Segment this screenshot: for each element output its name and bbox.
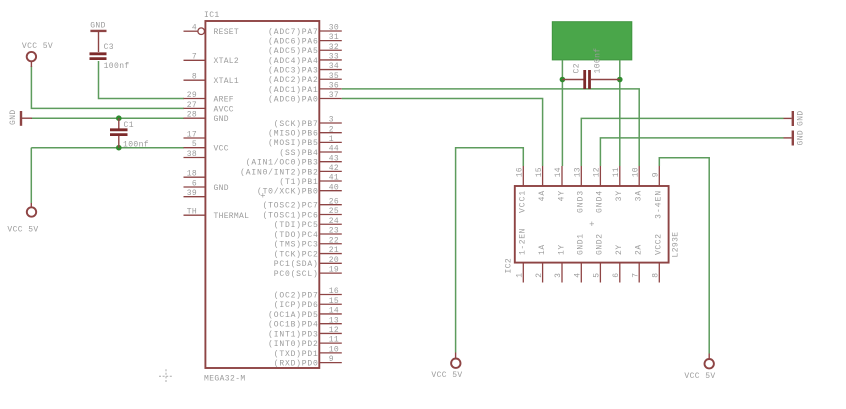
svg-text:13: 13 (329, 316, 339, 325)
svg-text:38: 38 (187, 150, 197, 159)
svg-text:3Y: 3Y (615, 190, 624, 202)
svg-text:PC1(SDA): PC1(SDA) (274, 260, 319, 269)
svg-text:1-2EN: 1-2EN (519, 228, 528, 255)
ground symbol GND (right upper, rotated) (784, 110, 806, 126)
svg-text:100nf: 100nf (123, 140, 149, 149)
svg-text:PC0(SCL): PC0(SCL) (274, 270, 319, 279)
svg-text:VCC2: VCC2 (655, 233, 664, 255)
svg-text:IC2: IC2 (505, 258, 514, 274)
svg-text:RESET: RESET (214, 28, 240, 37)
svg-text:(INT1)PD3: (INT1)PD3 (268, 330, 318, 339)
svg-text:C1: C1 (124, 121, 134, 130)
svg-text:(AIN1/OC0)PB3: (AIN1/OC0)PB3 (246, 159, 319, 168)
svg-text:6: 6 (192, 179, 197, 188)
svg-text:(TMS)PC3: (TMS)PC3 (274, 241, 319, 250)
svg-text:VCC1: VCC1 (519, 190, 528, 213)
svg-text:5: 5 (593, 273, 602, 278)
svg-text:GND: GND (214, 184, 229, 193)
wire net AVCC: VCC supply to IC1 pin 27 (31, 66, 184, 108)
svg-text:C3: C3 (104, 43, 114, 52)
svg-text:9: 9 (329, 355, 334, 364)
svg-text:32: 32 (329, 43, 339, 52)
wire net VCC: bottom-left VCC supply to IC1 pin 5 through C1 bottom (31, 147, 184, 149)
wire net PA0 to IC2 pin 15 (4A) (342, 99, 543, 167)
svg-text:36: 36 (329, 81, 339, 90)
svg-text:16: 16 (329, 287, 339, 296)
svg-text:(ADC2)PA2: (ADC2)PA2 (268, 76, 318, 85)
svg-text:GND: GND (90, 21, 106, 30)
wire motor left terminal to IC2 pin 14 (4Y) (561, 60, 563, 166)
svg-text:4Y: 4Y (557, 190, 566, 202)
svg-text:23: 23 (329, 227, 339, 236)
svg-text:3: 3 (554, 273, 563, 278)
capacitor C2 (rotated) (562, 47, 619, 89)
svg-text:7: 7 (192, 53, 197, 62)
svg-text:26: 26 (329, 197, 339, 206)
svg-text:19: 19 (329, 266, 339, 275)
svg-text:15: 15 (535, 167, 544, 177)
svg-text:22: 22 (329, 236, 339, 245)
svg-text:44: 44 (329, 145, 339, 154)
svg-text:33: 33 (329, 53, 339, 62)
wire net PA1 to IC2 pin 10 (3A) (342, 89, 639, 166)
svg-text:VCC 5V: VCC 5V (684, 372, 715, 381)
svg-text:GND: GND (9, 109, 18, 125)
junction C2 left (560, 77, 566, 83)
svg-text:4: 4 (192, 24, 197, 33)
svg-text:(TXD)PD1: (TXD)PD1 (274, 350, 319, 359)
svg-text:(SCK)PB7: (SCK)PB7 (274, 120, 319, 129)
svg-text:(OC1B)PD4: (OC1B)PD4 (268, 321, 318, 330)
svg-text:43: 43 (329, 154, 339, 163)
svg-text:10: 10 (631, 167, 640, 177)
svg-text:GND3: GND3 (577, 190, 586, 213)
svg-text:(ICP)PD6: (ICP)PD6 (274, 301, 319, 310)
svg-text:100nf: 100nf (104, 62, 130, 71)
motor block (green module) (552, 22, 632, 60)
svg-text:24: 24 (329, 217, 339, 226)
svg-text:GND: GND (797, 130, 806, 146)
svg-text:(MISO)PB6: (MISO)PB6 (268, 130, 318, 139)
svg-text:25: 25 (329, 207, 339, 216)
svg-text:3A: 3A (635, 190, 644, 202)
svg-text:AVCC: AVCC (214, 105, 234, 114)
svg-text:18: 18 (187, 170, 197, 179)
svg-text:GND4: GND4 (596, 190, 605, 213)
IC2 top pins with numbers (516, 166, 661, 186)
svg-text:TH: TH (187, 208, 197, 217)
svg-text:(ADC5)PA5: (ADC5)PA5 (268, 47, 318, 56)
svg-text:1Y: 1Y (557, 244, 566, 255)
svg-text:14: 14 (554, 167, 563, 177)
svg-text:29: 29 (187, 91, 197, 100)
svg-text:(ADC6)PA6: (ADC6)PA6 (268, 38, 318, 47)
svg-text:13: 13 (574, 167, 583, 177)
svg-text:XTAL1: XTAL1 (214, 77, 240, 86)
svg-text:VCC 5V: VCC 5V (7, 226, 38, 235)
svg-text:(SS)PB4: (SS)PB4 (279, 149, 318, 158)
svg-text:12: 12 (593, 167, 602, 177)
svg-text:(OC2)PD7: (OC2)PD7 (274, 291, 319, 300)
svg-text:2: 2 (535, 273, 544, 278)
wire net VCC1: IC2 pin 16 to bottom-center VCC supply (456, 148, 524, 353)
op IC1 MEGA32-M microcontroller body (205, 21, 319, 368)
svg-text:16: 16 (516, 167, 525, 177)
svg-text:(TOSC2)PC7: (TOSC2)PC7 (263, 202, 319, 211)
svg-text:21: 21 (329, 246, 339, 255)
svg-text:41: 41 (329, 174, 339, 183)
svg-text:37: 37 (329, 91, 339, 100)
svg-text:4A: 4A (538, 190, 547, 202)
junction C2 right (617, 77, 623, 83)
svg-text:(ADC0)PA0: (ADC0)PA0 (268, 95, 318, 104)
svg-text:14: 14 (329, 307, 339, 316)
svg-text:(OC1A)PD5: (OC1A)PD5 (268, 311, 318, 320)
svg-text:(ADC3)PA3: (ADC3)PA3 (268, 66, 318, 75)
IC1 left pin names (214, 28, 250, 221)
wire motor right terminal to IC2 pin 11 (3Y) (619, 60, 621, 166)
svg-text:AREF: AREF (214, 95, 234, 104)
wire net GND: left GND symbol to IC1 pin 28 through C1 top (31, 117, 184, 119)
svg-text:1A: 1A (538, 244, 547, 255)
wire net GND3: IC2 pin 13 to right GND (581, 118, 783, 166)
svg-text:20: 20 (329, 256, 339, 265)
svg-text:4: 4 (574, 273, 583, 278)
svg-text:17: 17 (187, 130, 197, 139)
svg-text:9: 9 (652, 172, 661, 177)
svg-text:11: 11 (612, 167, 621, 177)
power symbol VCC 5V (bottom left) (7, 203, 38, 235)
svg-text:2Y: 2Y (615, 244, 624, 255)
svg-text:30: 30 (329, 24, 339, 33)
svg-text:(T0/XCK)PB0: (T0/XCK)PB0 (257, 188, 319, 197)
svg-text:L293E: L293E (672, 231, 681, 257)
svg-text:(INT0)PD2: (INT0)PD2 (268, 340, 318, 349)
ground symbol GND (left, rotated) (9, 109, 32, 125)
svg-text:VCC 5V: VCC 5V (431, 371, 462, 380)
svg-text:(ADC4)PA4: (ADC4)PA4 (268, 57, 318, 66)
svg-text:34: 34 (329, 62, 339, 71)
svg-text:42: 42 (329, 164, 339, 173)
svg-text:VCC 5V: VCC 5V (22, 42, 53, 51)
svg-text:7: 7 (631, 273, 640, 278)
svg-text:GND2: GND2 (596, 233, 605, 255)
svg-text:IC1: IC1 (204, 11, 220, 20)
wire net GND4: IC2 pin 12 to right GND (600, 138, 783, 166)
svg-text:XTAL2: XTAL2 (214, 57, 240, 66)
svg-text:5: 5 (192, 140, 197, 149)
svg-text:39: 39 (187, 189, 197, 198)
svg-text:(MOSI)PB5: (MOSI)PB5 (268, 139, 318, 148)
capacitor C1 (110, 118, 149, 149)
svg-text:35: 35 (329, 72, 339, 81)
junction on VCC net at C1 (116, 145, 122, 151)
capacitor C3 (90, 43, 130, 71)
svg-text:THERMAL: THERMAL (214, 212, 250, 221)
IC2 top pin names (519, 190, 664, 219)
ground symbol GND (top, above C3) (90, 21, 106, 52)
svg-text:(TCK)PC2: (TCK)PC2 (274, 250, 319, 259)
svg-text:100nf: 100nf (594, 47, 603, 73)
svg-text:8: 8 (192, 73, 197, 82)
wire net 3-4EN: IC2 pin 9 to bottom-right VCC supply (659, 158, 709, 354)
svg-text:(ADC1)PA1: (ADC1)PA1 (268, 86, 318, 95)
svg-text:(T1)PB1: (T1)PB1 (279, 178, 318, 187)
wire net AREF: C3 to IC1 pin 29 (99, 61, 185, 99)
svg-text:3-4EN: 3-4EN (655, 190, 664, 219)
svg-text:(TDO)PC4: (TDO)PC4 (274, 231, 319, 240)
svg-text:1: 1 (516, 273, 525, 278)
svg-text:GND: GND (797, 110, 806, 126)
svg-text:(TDI)PC5: (TDI)PC5 (274, 221, 319, 230)
IC2 bottom pins with numbers (516, 263, 661, 283)
svg-text:10: 10 (329, 345, 339, 354)
svg-text:12: 12 (329, 326, 339, 335)
op IC2 L293E driver body (515, 186, 669, 263)
svg-text:15: 15 (329, 297, 339, 306)
svg-text:1: 1 (329, 135, 334, 144)
svg-text:GND1: GND1 (577, 233, 586, 255)
power symbol VCC 5V (bottom right) (684, 354, 715, 381)
svg-text:+: + (589, 220, 595, 230)
svg-text:GND: GND (214, 115, 229, 124)
svg-text:28: 28 (187, 111, 197, 120)
svg-text:C2: C2 (573, 63, 582, 73)
power symbol VCC 5V (bottom center) (431, 353, 462, 381)
svg-text:40: 40 (329, 183, 339, 192)
svg-text:11: 11 (329, 336, 339, 345)
svg-text:2: 2 (329, 125, 334, 134)
IC1 left pins with numbers (184, 24, 206, 217)
junction on GND net at C1 (116, 115, 122, 121)
IC1 right pins with numbers (319, 24, 342, 365)
sheet origin cross marker (159, 369, 173, 383)
svg-text:(RXD)PD0: (RXD)PD0 (274, 360, 319, 369)
svg-text:(AIN0/INT2)PB2: (AIN0/INT2)PB2 (240, 168, 318, 177)
svg-text:8: 8 (652, 273, 661, 278)
svg-text:3: 3 (329, 116, 334, 125)
svg-text:27: 27 (187, 101, 197, 110)
svg-text:MEGA32-M: MEGA32-M (204, 375, 246, 384)
IC2 bottom pin names (519, 228, 664, 255)
power symbol VCC 5V (top left) (22, 42, 53, 67)
svg-text:(TOSC1)PC6: (TOSC1)PC6 (263, 211, 319, 220)
svg-text:(ADC7)PA7: (ADC7)PA7 (268, 28, 318, 37)
svg-text:VCC: VCC (214, 145, 229, 154)
svg-text:2A: 2A (635, 244, 644, 255)
IC1 right pin names (240, 28, 318, 369)
svg-text:31: 31 (329, 33, 339, 42)
ground symbol GND (right lower, rotated) (784, 130, 806, 146)
svg-text:6: 6 (612, 273, 621, 278)
